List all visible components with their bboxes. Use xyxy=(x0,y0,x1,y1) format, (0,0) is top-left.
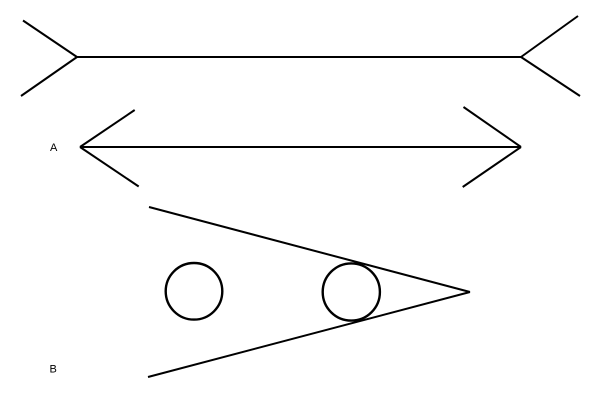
wire: figure A left upper inward fin xyxy=(80,110,135,147)
node: figure B left circle xyxy=(166,263,223,320)
node: figure B right circle xyxy=(323,263,380,320)
wire: top figure horizontal shaft xyxy=(77,56,521,58)
wire: top figure left upper outward fin xyxy=(23,21,77,58)
wire: top figure right upper outward fin xyxy=(521,16,578,57)
wire: figure B wedge bottom line xyxy=(148,292,470,377)
wire: figure A right lower inward fin xyxy=(463,147,521,187)
wire: figure A left lower inward fin xyxy=(80,147,139,187)
wire: figure A horizontal shaft xyxy=(80,146,521,148)
wire: figure B wedge top line xyxy=(149,207,470,292)
wire: figure A right upper inward fin xyxy=(464,107,522,147)
svg-text:A: A xyxy=(50,142,58,154)
wire: top figure left lower outward fin xyxy=(21,57,77,96)
svg-text:B: B xyxy=(50,364,57,376)
wire: top figure right lower outward fin xyxy=(521,57,580,96)
